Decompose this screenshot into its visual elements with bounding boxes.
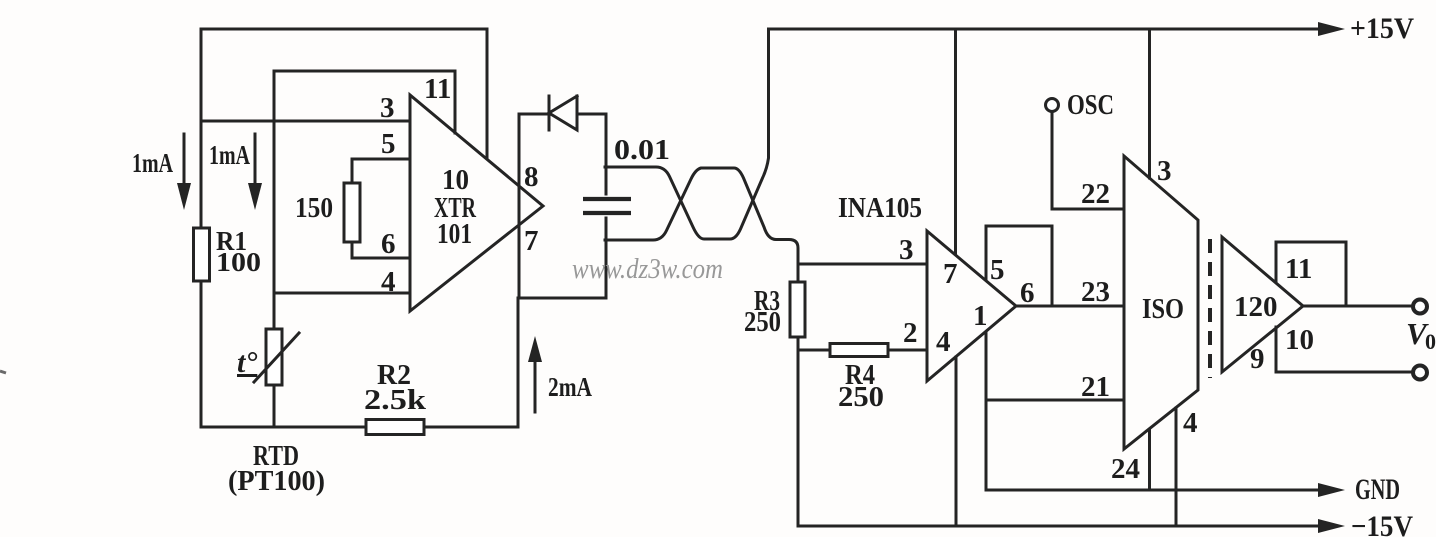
svg-text:www.dz3w.com: www.dz3w.com bbox=[572, 254, 723, 285]
svg-text:1mA: 1mA bbox=[132, 148, 173, 178]
svg-text:1mA: 1mA bbox=[209, 140, 250, 170]
svg-text:2mA: 2mA bbox=[548, 372, 592, 402]
svg-text:21: 21 bbox=[1081, 371, 1110, 403]
svg-text:ISO: ISO bbox=[1142, 293, 1184, 325]
svg-text:GND: GND bbox=[1355, 473, 1400, 506]
svg-text:4: 4 bbox=[936, 326, 951, 358]
svg-text:3: 3 bbox=[1157, 155, 1172, 187]
svg-text:8: 8 bbox=[524, 161, 539, 193]
svg-text:−15V: −15V bbox=[1351, 510, 1413, 537]
svg-text:INA105: INA105 bbox=[838, 193, 922, 224]
svg-text:1: 1 bbox=[973, 300, 988, 332]
svg-text:4: 4 bbox=[381, 266, 396, 298]
svg-text:0.01: 0.01 bbox=[614, 135, 670, 166]
svg-text:24: 24 bbox=[1111, 453, 1140, 485]
svg-text:9: 9 bbox=[1250, 343, 1265, 375]
svg-text:6: 6 bbox=[1020, 277, 1035, 309]
svg-text:150: 150 bbox=[295, 193, 333, 224]
svg-text:120: 120 bbox=[1234, 291, 1278, 323]
svg-text:22: 22 bbox=[1081, 178, 1110, 210]
svg-text:4: 4 bbox=[1183, 407, 1198, 439]
svg-text:10: 10 bbox=[1285, 324, 1314, 356]
svg-text:250: 250 bbox=[744, 307, 781, 338]
svg-text:10: 10 bbox=[442, 165, 469, 196]
svg-text:100: 100 bbox=[216, 247, 261, 277]
svg-text:3: 3 bbox=[380, 92, 395, 124]
svg-text:t°: t° bbox=[237, 346, 257, 379]
svg-text:3: 3 bbox=[899, 234, 914, 266]
svg-text:+15V: +15V bbox=[1350, 12, 1414, 45]
svg-text:101: 101 bbox=[437, 219, 472, 250]
svg-text:(PT100): (PT100) bbox=[228, 466, 325, 497]
svg-text:7: 7 bbox=[943, 258, 958, 290]
svg-text:5: 5 bbox=[381, 128, 396, 160]
svg-text:23: 23 bbox=[1081, 276, 1110, 308]
svg-text:0: 0 bbox=[1425, 329, 1436, 354]
svg-text:2.5k: 2.5k bbox=[364, 385, 427, 416]
svg-text:250: 250 bbox=[838, 382, 884, 413]
svg-text:6: 6 bbox=[381, 228, 396, 260]
svg-text:11: 11 bbox=[1285, 253, 1312, 285]
svg-text:2: 2 bbox=[903, 317, 918, 349]
svg-text:7: 7 bbox=[524, 225, 539, 257]
svg-text:5: 5 bbox=[990, 254, 1005, 286]
svg-text:11: 11 bbox=[424, 73, 451, 105]
svg-text:OSC: OSC bbox=[1067, 90, 1114, 121]
